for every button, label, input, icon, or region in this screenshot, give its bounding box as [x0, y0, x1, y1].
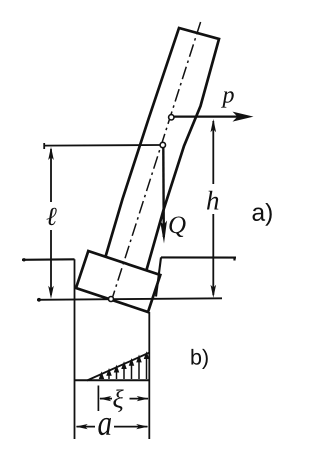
b) right extension line — [148, 312, 150, 439]
soil pressure diagram hypotenuse — [87, 353, 150, 381]
label Q — [169, 216, 185, 237]
ground line left — [22, 258, 75, 261]
wire: l top reference line — [44, 143, 160, 149]
label h — [207, 191, 218, 210]
force Q arrow — [160, 148, 167, 244]
hinge node circle (Q application point) — [160, 142, 165, 147]
label b) — [191, 349, 207, 369]
force P arrow — [173, 112, 254, 122]
footing block — [76, 251, 160, 312]
pit right wall — [156, 257, 161, 296]
pole (tilted post outline) — [106, 28, 220, 270]
label a) — [253, 203, 272, 226]
label a (dimension) — [98, 418, 111, 435]
wire: bottom reference line (pit bottom / pivot level) — [37, 298, 222, 300]
pit left wall and b) left extension line — [74, 259, 76, 439]
label xi — [113, 389, 123, 412]
pivot node circle at pit bottom — [109, 297, 114, 302]
hinge node circle (P application point) — [169, 115, 174, 120]
dimension l (vertical, left) — [48, 147, 54, 299]
ground line right — [161, 257, 236, 260]
dimension h (vertical, right) — [211, 119, 217, 298]
axis centerline (dash-dot) — [112, 22, 201, 299]
soil pressure distributed load arrows — [100, 354, 148, 380]
soil pressure diagram baseline — [75, 379, 150, 381]
dimension xi — [99, 396, 149, 401]
dimension a — [76, 424, 149, 429]
label l (script ell) — [47, 208, 57, 226]
label p — [221, 91, 234, 107]
dimension xi tick (left limit) — [97, 386, 99, 412]
